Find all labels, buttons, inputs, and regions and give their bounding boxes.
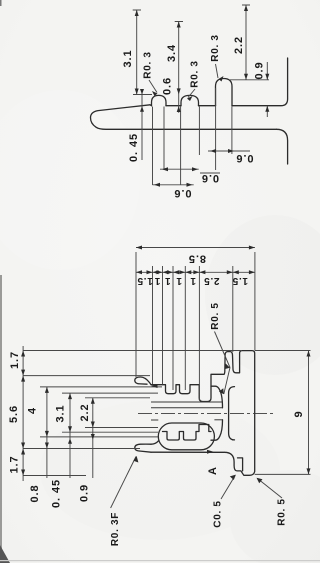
leader R0.5 bottom: [258, 479, 283, 499]
ext 9 bottom: [255, 473, 311, 475]
bore mouth funnel bottom: [211, 420, 223, 440]
ext 9 top: [255, 350, 311, 352]
leader R0.3 #1: [149, 80, 157, 93]
lip top (front tongue): [135, 377, 151, 385]
leader R0.5 top b: [224, 368, 230, 395]
svg-text:3.1: 3.1: [54, 405, 66, 423]
surface bump2-tall bump: [199, 105, 216, 107]
svg-text:1: 1: [164, 275, 170, 286]
bottom edge right corner tail: [277, 129, 288, 164]
dim 0.6 bottom #1: [153, 184, 194, 186]
ext verticals row: [136, 252, 255, 400]
bore wall stub right: [214, 419, 222, 421]
capsule inner profile: [163, 425, 212, 441]
left chain dim line 1.7/5.6/1.7: [22, 346, 24, 481]
svg-text:R0. 3: R0. 3: [190, 60, 201, 87]
dim 0.6 bottom #3: [208, 150, 250, 152]
bore wall line upper a: [151, 401, 222, 403]
dim 0.6 bottom #2: [160, 169, 220, 173]
groove ext lines bottom: [153, 88, 232, 185]
svg-text:1: 1: [190, 275, 196, 286]
svg-text:1.7: 1.7: [9, 351, 21, 369]
scan corner top-left: [0, 0, 2, 6]
svg-text:1: 1: [176, 275, 182, 286]
svg-text:2.2: 2.2: [233, 36, 245, 54]
svg-text:1.5: 1.5: [137, 275, 153, 286]
tab (rounded tongue, left end): [91, 105, 277, 130]
recess step bottom: [238, 458, 243, 471]
surface segment tab to bump1: [150, 104, 152, 107]
dim 4 line: [46, 387, 48, 478]
svg-text:2.2: 2.2: [79, 404, 91, 422]
leader R0.3 #2: [188, 89, 195, 98]
svg-text:A: A: [207, 466, 219, 475]
dim 3.4 / 0.6 shared line: [175, 22, 183, 113]
bore window capsule: [158, 423, 214, 450]
svg-text:R0. 5: R0. 5: [210, 302, 221, 329]
svg-text:4: 4: [26, 407, 38, 414]
ext 3.1 top: [62, 392, 158, 394]
svg-text:0.6: 0.6: [201, 172, 219, 184]
svg-text:R0. 3F: R0. 3F: [110, 512, 121, 546]
leader R0.5 top a: [215, 332, 231, 368]
lip to capsule merge curve: [151, 441, 159, 444]
svg-text:3.1: 3.1: [122, 50, 134, 68]
surface after tall bump with right fillet: [232, 58, 288, 106]
ext slab top: [23, 350, 242, 352]
svg-text:R0. 5: R0. 5: [277, 498, 288, 525]
bore window on flange left face: [229, 387, 235, 440]
ext 3.1 bottom: [62, 431, 158, 433]
dim 0.45 line: [141, 89, 143, 160]
ext lip top: [23, 375, 150, 377]
dim 8.5 line: [136, 247, 255, 249]
lip bottom (R0.3F): [135, 444, 151, 452]
leader C0.5: [221, 475, 235, 499]
dim 2.2 line: [242, 5, 250, 80]
ext slab bottom: [23, 475, 86, 477]
scan edge left: [0, 275, 2, 563]
ext crest bottom: [23, 448, 140, 450]
chained row line: [136, 271, 255, 273]
svg-text:3.4: 3.4: [166, 44, 178, 62]
svg-text:R0. 3: R0. 3: [210, 34, 221, 61]
dim 0.9 line: [266, 62, 268, 117]
top surface with grooves: [151, 374, 224, 401]
leader R0.3 #3: [216, 64, 219, 78]
ext 4 bottom: [40, 436, 158, 438]
svg-text:C0. 5: C0. 5: [213, 500, 224, 527]
svg-text:0.9: 0.9: [253, 62, 265, 80]
extension line block top: [230, 79, 269, 81]
bump R1 (small rib): [152, 95, 167, 105]
bore mouth funnel top: [211, 386, 223, 408]
svg-text:0. 45: 0. 45: [50, 479, 62, 508]
svg-text:8.5: 8.5: [188, 253, 206, 265]
arrowheads main view: [136, 246, 142, 250]
centerline: [138, 413, 274, 415]
flange outline with ridge, ledges: [224, 351, 255, 476]
svg-text:0.6: 0.6: [161, 77, 173, 95]
ext 4 top: [40, 386, 162, 388]
bump R2 (small rib): [181, 95, 199, 105]
svg-text:0. 45: 0. 45: [128, 133, 140, 162]
svg-text:0.8: 0.8: [29, 485, 41, 503]
tall bump: [216, 79, 233, 106]
dim 3.1 line: [133, 10, 152, 95]
svg-text:R0. 3: R0. 3: [143, 51, 154, 78]
ext 2.2 top: [85, 397, 150, 399]
leader R0.3F: [111, 457, 136, 509]
svg-text:1.7: 1.7: [8, 456, 20, 474]
dim 9 line: [308, 351, 310, 475]
svg-text:0.6: 0.6: [236, 152, 254, 164]
svg-text:2.5: 2.5: [203, 275, 219, 286]
paper mottling: [205, 215, 320, 375]
scan edge bottom-left blob: [0, 545, 10, 563]
svg-text:9: 9: [293, 410, 305, 417]
dim 3.1 line (main): [69, 393, 71, 478]
svg-text:1.5: 1.5: [232, 275, 248, 286]
svg-text:0.6: 0.6: [174, 187, 192, 199]
dim 2.2 line (main): [92, 398, 94, 478]
svg-text:5.6: 5.6: [8, 405, 20, 423]
svg-text:1: 1: [154, 275, 160, 286]
bottom surface: [151, 451, 224, 453]
arrowheads top view: [135, 10, 139, 16]
surface bump1-bump2: [166, 105, 181, 107]
ext 2.2 bottom: [85, 427, 158, 429]
bore wall stub left: [151, 419, 158, 421]
bore wall line upper b: [151, 407, 222, 409]
scan edge bottom: [0, 560, 320, 561]
svg-text:0.9: 0.9: [78, 484, 90, 502]
